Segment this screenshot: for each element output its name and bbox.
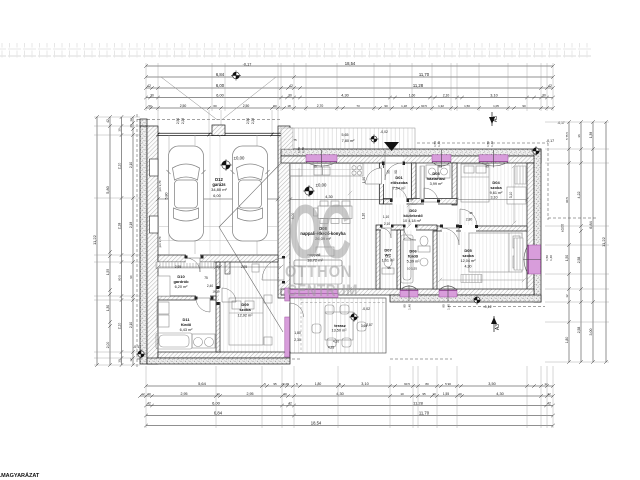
garage front edge line [158,133,281,135]
svg-text:szoba: szoba [462,253,474,258]
door to D09 [219,288,225,302]
svg-text:±0,00: ±0,00 [316,183,327,188]
svg-text:90: 90 [313,165,317,169]
svg-text:2,00: 2,00 [106,342,110,349]
interior dim line living left vertical [298,168,300,285]
car 1 in garage [167,146,206,241]
right vertical chain d [604,120,608,364]
svg-text:-0,02: -0,02 [362,307,370,311]
interior dim line D04 horizontal 3,10 [455,198,529,202]
window D05 bottom (magenta) [439,290,457,297]
main top wall - insulation band [281,149,541,156]
elevation marker top [231,71,241,81]
cabinet in D10 [158,276,170,296]
watermark OC logo [285,190,358,300]
interior dim line left wing 2,95 [156,265,283,269]
svg-text:±0,00: ±0,00 [234,156,245,161]
interior wall D07/D06 [397,230,401,289]
svg-text:1,50: 1,50 [464,104,470,108]
extension lines right [545,122,609,362]
svg-text:-0,12: -0,12 [483,305,491,309]
svg-text:3,00: 3,00 [589,329,593,336]
dim line hallway vertical [407,203,411,228]
svg-text:1,55: 1,55 [443,392,449,396]
bed in D09 [229,295,272,345]
terrace door to wing (magenta) [285,317,290,357]
svg-text:10: 10 [216,392,220,396]
interior dim line D05 horizontal [438,278,526,282]
svg-text:közlekedő: közlekedő [403,213,423,218]
svg-text:5,39 m²: 5,39 m² [407,260,421,264]
svg-text:1,38: 1,38 [589,132,593,138]
svg-text:-0,17: -0,17 [557,121,564,125]
svg-text:3,10: 3,10 [490,93,497,97]
door to D06 [404,225,416,231]
right wall - insulation band [534,149,541,302]
svg-text:5 75 5: 5 75 5 [565,132,569,140]
svg-text:1,40: 1,40 [490,141,494,147]
window D04 (magenta) [479,155,508,162]
svg-text:10: 10 [458,392,462,396]
svg-text:2,87: 2,87 [366,323,372,327]
svg-text:előszoba: előszoba [390,180,408,185]
svg-text:±0,00: ±0,00 [561,224,565,232]
svg-text:18: 18 [287,104,291,108]
garage front extension stubs [158,110,278,135]
door to D05 swing arc [442,225,456,232]
svg-text:13,50 m²: 13,50 m² [332,329,348,333]
svg-text:-0,17: -0,17 [243,63,252,67]
sinks in D11 [192,334,215,348]
svg-text:90: 90 [394,170,398,174]
svg-text:30: 30 [117,128,121,132]
entrance arrow [384,142,399,151]
svg-text:pm 3,70: pm 3,70 [158,236,162,247]
dining table and chairs [314,201,353,224]
section mark A3 top [491,112,493,126]
svg-text:2,80: 2,80 [466,218,473,222]
garage-living separation wall [278,126,290,298]
svg-text:2,10: 2,10 [384,222,390,226]
garage horizontal guide lines [158,227,278,241]
rotated 90 labels at entrance [387,170,399,174]
shelf in D03 [420,166,425,199]
svg-text:12,04 m²: 12,04 m² [461,259,477,263]
garage guide verticals [169,135,257,255]
svg-text:2,70: 2,70 [317,104,324,108]
svg-text:4,30: 4,30 [341,93,348,97]
svg-text:90 5: 90 5 [404,382,410,386]
svg-text:30: 30 [283,392,287,396]
svg-text:2,50: 2,50 [176,118,180,124]
svg-text:2,10: 2,10 [117,163,121,170]
interior dim line living vertical [348,163,352,291]
svg-text:5,80: 5,80 [165,193,169,200]
wardrobe in D04 [515,166,526,184]
dimension chain 6,84 / 11,70 [144,75,555,79]
svg-text:2,58: 2,58 [577,257,581,264]
svg-text:JELMAGYARÁZAT: JELMAGYARÁZAT [0,472,40,479]
main bottom wall right - insulation band [390,295,541,302]
svg-text:OTTHON: OTTHON [285,263,353,281]
svg-text:42: 42 [288,401,292,405]
svg-text:1,30: 1,30 [106,305,110,311]
interior wall D03/D04 [452,163,457,205]
svg-text:1,61 m²: 1,61 m² [382,259,396,263]
right vertical chain a [567,120,571,364]
svg-text:1,18: 1,18 [401,104,407,108]
top boundary masonry strip [0,43,592,58]
svg-text:10 4,18 m²: 10 4,18 m² [403,219,422,223]
garage left wall piers [150,159,159,176]
svg-text:90: 90 [522,104,526,108]
room D04 floor [457,163,527,226]
svg-text:6,00: 6,00 [216,93,223,97]
svg-text:90: 90 [384,104,388,108]
window D06 bottom (magenta) [400,290,418,297]
dimension chain bottom fine [144,384,555,388]
left vertical chain c [131,115,135,367]
svg-text:1,40: 1,40 [447,304,451,310]
svg-text:1,05: 1,05 [493,104,499,108]
svg-text:42: 42 [547,401,551,405]
terrace table and chairs [312,305,366,347]
garage door projection V [161,77,276,120]
right vertical chain b [579,120,583,364]
svg-text:16 10: 16 10 [213,290,220,294]
extension lines bottom [146,366,553,428]
svg-text:fürdő: fürdő [408,254,419,259]
svg-text:36: 36 [577,134,581,138]
svg-text:CENTRUM: CENTRUM [287,282,358,301]
svg-text:18,54: 18,54 [311,420,322,425]
svg-text:2,30: 2,30 [294,338,301,342]
garage rear wall [158,255,278,262]
svg-text:10: 10 [432,392,436,396]
terrace roof overhang dashed [301,298,386,353]
right wall - masonry [527,163,534,295]
svg-text:4,30: 4,30 [465,265,472,269]
porch floor [285,128,415,149]
svg-text:42: 42 [106,119,110,123]
car 2 in garage [231,146,270,241]
svg-text:1,80: 1,80 [565,337,569,344]
svg-text:2,10: 2,10 [443,93,450,97]
toilet in D07 WC [382,257,394,274]
svg-text:90: 90 [442,304,446,308]
sofa [294,247,342,284]
left wing bottom wall - insulation band [147,358,290,364]
svg-text:pm 3,70: pm 3,70 [158,180,162,191]
svg-text:90: 90 [438,165,442,169]
svg-text:10 1,55: 10 1,55 [407,267,417,271]
garage front rotated labels [176,118,255,124]
svg-text:95: 95 [422,392,426,396]
svg-text:3,50: 3,50 [488,382,495,386]
svg-text:2,40: 2,40 [207,284,213,288]
dashed boundary line top (eaves) [137,120,548,144]
living room D08 floor [290,163,413,289]
svg-text:szoba: szoba [239,307,251,312]
svg-text:90: 90 [129,275,133,279]
svg-text:2,18: 2,18 [117,223,121,230]
dimension chain bottom 6,84 / 11,70 [144,414,555,418]
door garage to D10 [186,254,200,263]
door D01 to D02 [393,198,407,205]
room D05 floor [437,231,527,289]
garage front pillar [212,125,225,136]
elevation marker bottom wall [472,295,481,304]
svg-text:42: 42 [547,392,551,396]
svg-text:30: 30 [542,93,546,97]
door to D04 [461,225,476,232]
svg-text:-0,17: -0,17 [546,139,554,143]
interior dim line D04 vertical 3,10 [512,164,516,225]
svg-text:12: 12 [129,358,133,362]
svg-text:6,84: 6,84 [589,221,593,228]
svg-text:2,95: 2,95 [247,392,254,396]
svg-text:2,95: 2,95 [181,392,188,396]
svg-text:6,43 m²: 6,43 m² [180,328,194,332]
window D09 side upper (magenta) [285,288,290,301]
svg-text:2,10: 2,10 [129,322,133,328]
interior wall D04 bottom [437,226,527,231]
left vertical chain b [120,115,124,367]
elevation marker living [303,185,315,197]
svg-text:80: 80 [425,382,429,386]
svg-text:6,84: 6,84 [214,410,223,415]
svg-text:90: 90 [403,304,407,308]
door to D07 [381,225,391,231]
svg-text:95: 95 [469,211,473,215]
svg-text:95: 95 [273,382,277,386]
svg-text:11,22: 11,22 [92,234,97,244]
svg-text:18,54: 18,54 [345,61,356,66]
bed in D05 [469,233,522,272]
svg-text:42: 42 [289,84,293,88]
dashed boundary line bottom [137,307,545,360]
interior wall D08/D01 [380,163,384,204]
svg-text:6,00: 6,00 [216,83,225,88]
elevation marker garage [220,159,232,171]
dimension chain 6,00 / 11,28 [144,86,555,90]
wardrobe in D10 [156,262,214,268]
svg-text:5,65: 5,65 [342,133,349,137]
svg-text:2,10: 2,10 [129,162,133,168]
left wing bottom wall - masonry [158,352,290,358]
interior wall D06/D05 [433,231,437,289]
svg-text:3,10: 3,10 [509,192,513,199]
svg-text:-0,02: -0,02 [380,130,388,134]
svg-text:2,10: 2,10 [117,323,121,330]
svg-text:11,28: 11,28 [413,83,424,88]
room D09 floor [220,262,281,352]
door jamb marks [185,162,479,306]
svg-text:1,40: 1,40 [437,141,441,147]
svg-text:48: 48 [129,124,133,128]
svg-text:3,10: 3,10 [361,382,368,386]
pm 3,70 labels [158,180,162,247]
bottom window rotated labels [403,304,451,310]
dashed boundary line left [136,114,138,368]
interior wall D07 left [376,230,380,289]
svg-text:6,84: 6,84 [216,72,225,77]
washing machines in D03 [426,165,450,178]
window head height labels [297,141,553,261]
diagonal guide line lower [219,227,283,332]
window D03 (magenta) [432,155,451,162]
svg-text:5,80: 5,80 [106,186,110,193]
bed in D04 [461,164,489,202]
svg-text:30: 30 [150,93,154,97]
svg-text:30: 30 [117,359,121,363]
radiator in D05 [514,238,523,270]
washer in D11 [157,302,169,327]
svg-text:2,18: 2,18 [129,222,133,228]
svg-text:1,90: 1,90 [362,177,366,183]
svg-text:WC: WC [385,253,392,258]
porch steps hatch [281,128,293,149]
dimension chain bottom total 18,54 [144,424,555,428]
svg-text:95: 95 [387,266,391,270]
svg-text:11,28: 11,28 [413,400,423,405]
garage rotated 5,80 labels [165,193,257,200]
svg-text:4,22: 4,22 [577,192,581,199]
door to D03 [424,199,438,206]
entrance door with swing arc [384,157,403,170]
svg-text:1,10: 1,10 [383,215,389,219]
dimension chain bottom 6,00 / 11,28 [144,404,555,408]
elevation marker terrace [349,312,359,322]
dashed boundary line right [548,143,598,220]
svg-text:3,10: 3,10 [491,196,498,200]
elevation marker bottom-left [136,349,146,359]
interior wall hallway bottom [376,225,437,230]
garage mid dimension 6,00 [156,197,280,201]
svg-text:90 5: 90 5 [565,197,569,203]
svg-text:A3: A3 [495,324,501,330]
dimension chain bottom rooms [138,394,555,398]
extension lines left [94,117,140,365]
svg-text:2,58: 2,58 [577,327,581,334]
door D01 to D08 [379,168,385,184]
garage front left stub [140,119,147,126]
svg-text:terasz: terasz [334,323,346,328]
svg-text:2,25: 2,25 [181,118,185,124]
svg-text:42: 42 [147,84,151,88]
svg-text:34,80 m²: 34,80 m² [211,187,227,192]
left vertical chain a [108,115,112,367]
svg-text:42: 42 [147,401,151,405]
svg-text:5 90: 5 90 [445,382,451,386]
window kitchen (magenta) [306,155,337,162]
svg-text:5,64: 5,64 [198,381,207,386]
terrace floor [290,298,386,353]
right vertical chain c [591,120,595,364]
svg-text:20 28: 20 28 [281,382,289,386]
svg-text:szoba: szoba [490,185,502,190]
dimension chain openings top [144,106,555,110]
svg-text:90: 90 [485,165,489,169]
svg-text:75: 75 [204,276,208,280]
svg-text:2,25: 2,25 [251,118,255,124]
svg-text:12: 12 [129,118,133,122]
wardrobe in D05 [461,275,482,283]
svg-text:73: 73 [356,104,360,108]
window D04 right (magenta) [528,245,541,274]
svg-text:12: 12 [565,294,569,298]
svg-text:1,10: 1,10 [362,213,366,219]
living extra rotated labels [362,177,367,219]
svg-text:1,55: 1,55 [106,269,110,275]
kitchen counter [290,164,364,177]
interior wall D01/D03 [412,163,417,204]
svg-text:1,40: 1,40 [301,147,305,153]
cabinet in D09 top [252,264,259,272]
svg-text:30: 30 [288,93,292,97]
dimension chain room widths top [144,96,555,100]
interior wall below D01-D03 [384,199,458,205]
svg-text:75: 75 [293,138,297,142]
outer wall left - masonry [147,126,158,364]
svg-text:12: 12 [544,382,548,386]
door wing to terrace swing arc [290,303,304,317]
svg-text:11,22: 11,22 [601,236,606,246]
svg-text:4,25: 4,25 [328,346,334,350]
interior wall D10/D11 [158,296,216,300]
svg-text:-0,17: -0,17 [133,345,141,349]
elevation marker top-right corner [531,146,541,156]
svg-text:1,50: 1,50 [565,255,569,261]
svg-text:1,32: 1,32 [438,104,444,108]
svg-text:1,40: 1,40 [549,255,553,261]
svg-text:90: 90 [387,170,391,174]
svg-text:2,50: 2,50 [243,104,250,108]
svg-text:90 5: 90 5 [421,104,427,108]
svg-text:1,80: 1,80 [315,382,322,386]
door to D11 [196,295,210,301]
left vertical chain total 11,22 [95,115,99,367]
svg-text:42: 42 [548,84,552,88]
svg-text:10: 10 [400,392,404,396]
svg-text:6,00: 6,00 [212,400,221,405]
svg-text:6,00: 6,00 [213,194,220,198]
svg-text:50: 50 [148,104,152,108]
extension lines top [146,63,553,111]
svg-text:4,30: 4,30 [496,392,503,396]
elevation marker porch [369,134,378,143]
svg-text:12,92 m²: 12,92 m² [238,314,254,318]
door living room to left wing [279,258,289,280]
main bottom wall - masonry [281,289,534,295]
svg-text:11,70: 11,70 [419,72,430,77]
svg-text:3,99 m²: 3,99 m² [430,182,444,186]
svg-text:2,50: 2,50 [180,104,187,108]
svg-text:60: 60 [213,104,217,108]
svg-text:fürdő: fürdő [181,322,192,327]
svg-text:7,80 m²: 7,80 m² [342,139,356,143]
svg-text:9,61 m²: 9,61 m² [490,191,504,195]
svg-text:90 5: 90 5 [117,275,121,281]
terrace sliding door (magenta) [290,290,338,298]
svg-text:7,04 m²: 7,04 m² [393,187,407,191]
svg-text:12: 12 [141,392,145,396]
section mark A3 bottom [493,316,495,332]
interior wall D10/D09 [216,262,220,352]
main top wall - masonry [281,156,541,163]
dimension chain total 18,54 [144,64,555,68]
outer wall left - insulation band [140,126,147,364]
